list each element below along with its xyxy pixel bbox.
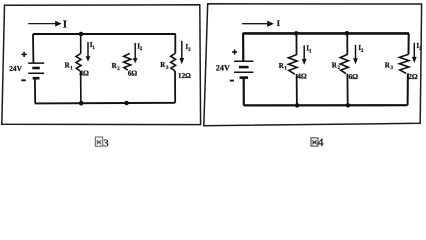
svg-text:4: 4 (318, 137, 324, 149)
label I2 (left circuit) (137, 43, 143, 52)
svg-text:2Ω: 2Ω (408, 72, 418, 81)
battery B2 24V (right circuit) (234, 61, 253, 77)
minus sign of battery B2 (230, 80, 234, 82)
current arrow I2 (left circuit) (133, 43, 138, 63)
value label 6 ohm (right R2) (349, 72, 359, 81)
svg-text:I: I (63, 18, 67, 30)
label R2 (right circuit) (332, 61, 341, 71)
junction node A (top of branch R1) (79, 32, 84, 37)
wire: right branch R1 lower segment (296, 74, 298, 105)
svg-text:2: 2 (140, 47, 143, 52)
label R3 (right circuit) (385, 61, 394, 71)
svg-text:1: 1 (309, 50, 312, 55)
svg-text:2: 2 (361, 49, 364, 54)
svg-text:1: 1 (92, 46, 95, 51)
current arrow I3 (right circuit) (412, 43, 417, 63)
label R3 (left circuit) (160, 61, 169, 71)
left figure frame (2, 5, 201, 125)
right figure frame (204, 4, 422, 126)
caption figure 4 (CJK glyph tu) (311, 138, 318, 146)
wire: right branch R1 upper segment (296, 33, 298, 55)
label I1 (right circuit) (306, 46, 312, 55)
svg-text:24V: 24V (216, 63, 230, 72)
junction node (bottom wire below R2) (124, 101, 129, 106)
svg-text:24V: 24V (9, 64, 22, 73)
wire: branch R1 lower segment (80, 71, 82, 103)
value label 2 ohm (right R3) (408, 72, 418, 81)
wire: left circuit right rail lower (174, 71, 176, 103)
current arrow I (left circuit total current) (28, 21, 61, 27)
current arrow I1 (right circuit) (302, 45, 307, 65)
label I1 (left circuit) (90, 42, 96, 51)
wire: right circuit bottom rail (244, 104, 408, 106)
resistor R1 4ohm zigzag (left circuit) (76, 54, 81, 72)
plus sign of battery B2 (232, 50, 237, 55)
svg-text:3: 3 (188, 48, 191, 53)
label R1 (left circuit) (65, 62, 74, 72)
current arrow I3 (left circuit) (179, 41, 184, 64)
resistor R1 4ohm zigzag (right circuit) (288, 55, 297, 75)
resistor R2 6ohm zigzag (right circuit) (340, 54, 348, 73)
junction node (bottom of right branch R1) (295, 103, 300, 108)
caption figure 3 (CJK glyph tu) (95, 137, 102, 146)
label R1 (right circuit) (279, 62, 288, 72)
caption figure 3 digit (103, 139, 108, 150)
junction node (bottom of branch R1) (79, 101, 84, 106)
junction node (top of right branch R1) (294, 31, 299, 36)
value label 24V (left battery) (9, 64, 22, 73)
svg-text:3: 3 (103, 139, 108, 150)
junction node (bottom of right branch R2) (346, 103, 351, 108)
label I (left total current) (63, 18, 67, 30)
svg-text:1: 1 (70, 66, 73, 71)
svg-text:6Ω: 6Ω (349, 72, 359, 81)
svg-text:I: I (277, 18, 281, 28)
resistor R3 12ohm zigzag (left circuit) (171, 53, 176, 71)
wire: right branch R2 upper segment (346, 33, 348, 54)
wire: right circuit left rail lower (243, 78, 245, 105)
label R2 (left circuit) (112, 62, 121, 72)
svg-text:6Ω: 6Ω (128, 68, 138, 77)
svg-text:12Ω: 12Ω (178, 72, 191, 80)
battery B1 24V (left circuit) (28, 63, 44, 78)
junction node (top of right branch R2) (345, 31, 350, 36)
svg-text:3: 3 (391, 66, 394, 71)
wire: branch R1 upper segment (80, 34, 82, 54)
label I (right total current) (277, 18, 281, 28)
wire: right circuit right rail upper (408, 33, 410, 54)
current arrow I1 (left circuit) (86, 42, 91, 62)
svg-text:4Ω: 4Ω (79, 69, 89, 78)
svg-text:3: 3 (166, 66, 169, 71)
wire: left circuit bottom rail (35, 102, 175, 105)
wire: right branch R2 lower segment (346, 74, 348, 106)
resistor R3 2ohm zigzag (right circuit) (399, 54, 409, 73)
value label 4 ohm (right R1) (297, 72, 307, 81)
current arrow I (right circuit total current) (242, 21, 274, 27)
svg-text:4Ω: 4Ω (297, 72, 307, 81)
svg-text:1: 1 (284, 67, 287, 72)
label I3 (left circuit) (186, 44, 192, 53)
minus sign of battery B1 (21, 79, 26, 81)
wire: left circuit right rail upper (174, 34, 176, 53)
resistor R2 6ohm zigzag (left circuit, floating in scan) (124, 53, 131, 70)
wire: left circuit top rail (33, 33, 176, 35)
label I3 (right circuit) (416, 43, 422, 52)
wire: right circuit left rail upper (242, 33, 244, 61)
value label 24V (right battery) (216, 63, 230, 72)
caption figure 4 digit (318, 137, 324, 149)
wire: left circuit left rail upper (battery to top rail) (32, 34, 34, 63)
svg-text:2: 2 (117, 67, 120, 72)
label I2 (right circuit) (358, 45, 364, 54)
value label 4 ohm (left R1) (79, 69, 89, 78)
value label 6 ohm (left R2) (128, 68, 138, 77)
wire: right circuit right rail lower (407, 73, 409, 105)
plus sign of battery B1 (22, 52, 27, 57)
current arrow I2 (right circuit) (353, 45, 358, 65)
value label 12 ohm (left R3) (178, 72, 191, 80)
wire: left circuit left rail lower (battery to bottom rail) (34, 79, 36, 104)
wire: right circuit top rail (243, 32, 409, 35)
